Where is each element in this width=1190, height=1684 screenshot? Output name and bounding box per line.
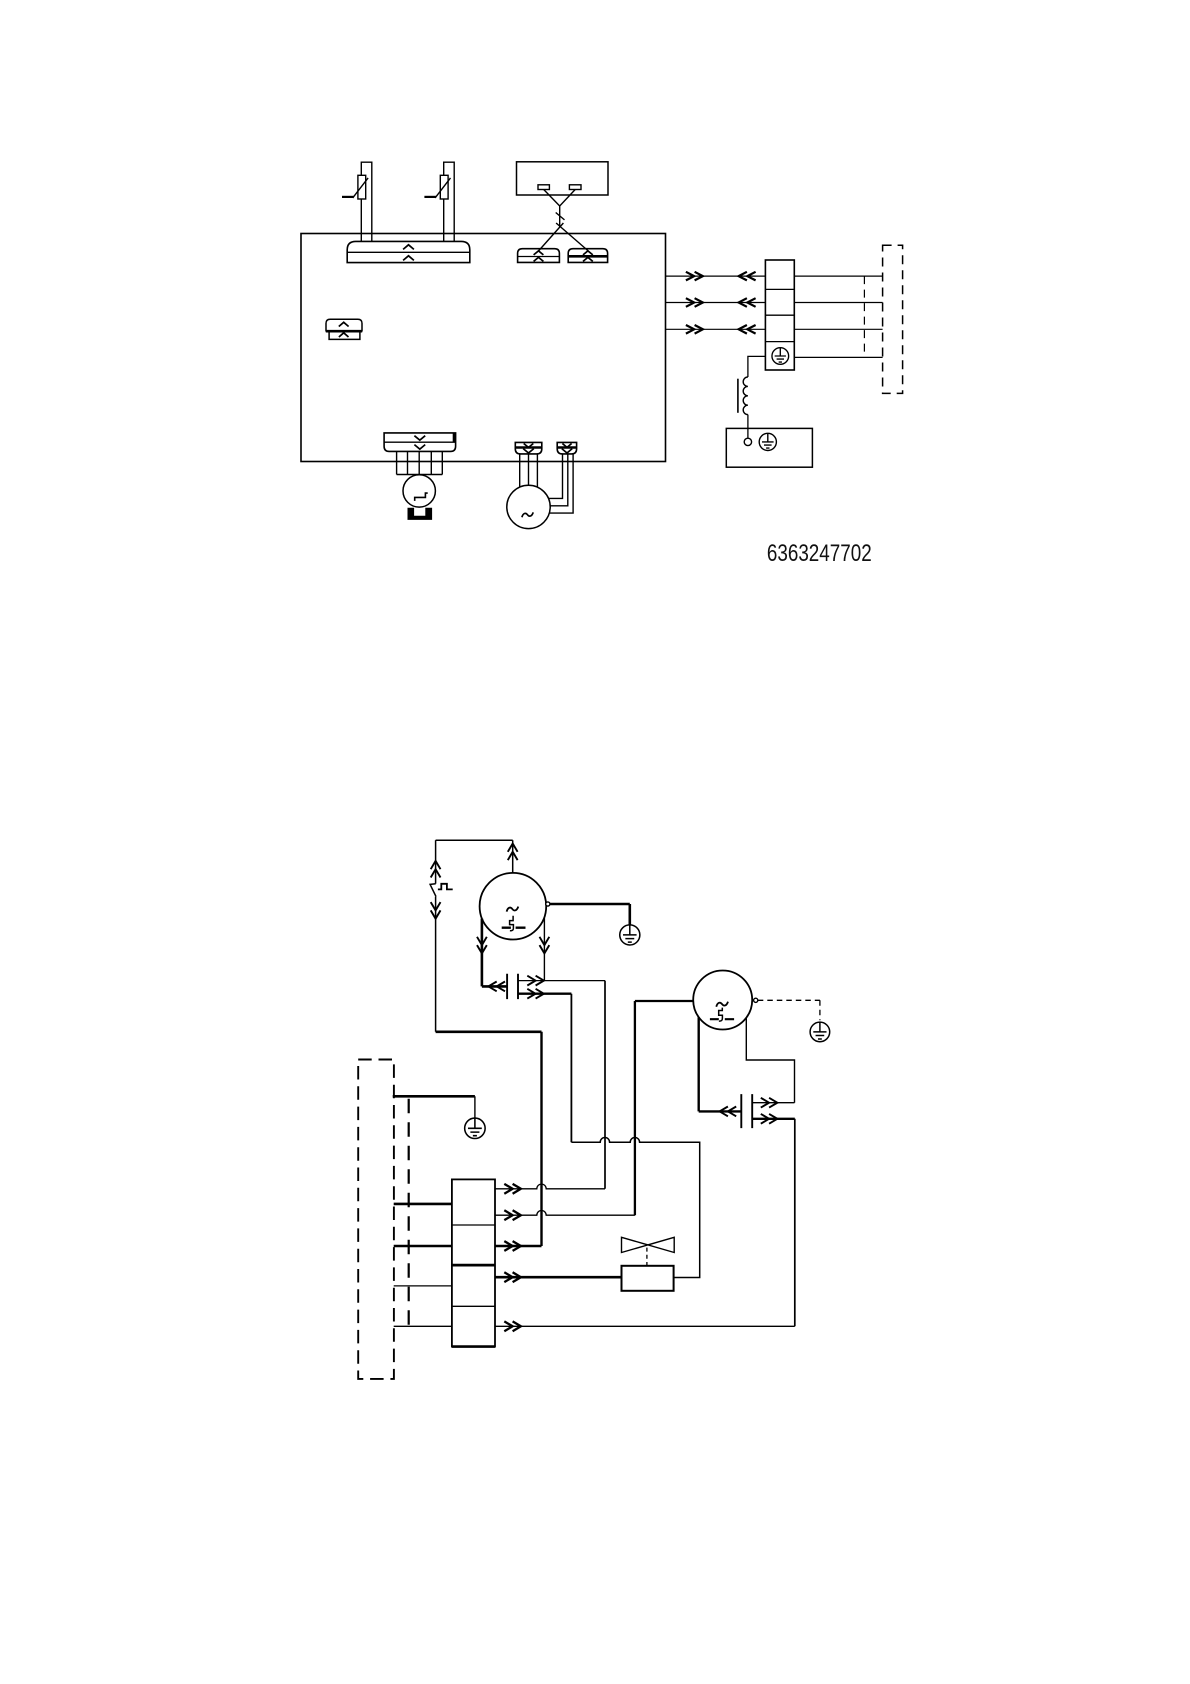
TB2 wire 3 arrows — [504, 1241, 521, 1251]
thermistor TH2 — [424, 175, 450, 199]
connector CN-OPT — [326, 319, 362, 339]
compressor earth terminal — [546, 902, 550, 906]
fan motor left leads — [520, 454, 538, 487]
fan PE symbol — [810, 1022, 830, 1042]
overload protector OLP — [430, 884, 453, 897]
thermistor TH2 probe sleeve — [444, 162, 455, 241]
valve stem dashed — [646, 1248, 648, 1266]
OLP branch up arrows — [431, 861, 441, 878]
supply PE symbol — [465, 1118, 485, 1138]
fan motor right leads — [549, 454, 574, 513]
indoor fan motor M2 — [507, 485, 550, 528]
PCB to terminal block wires — [666, 276, 766, 329]
supply earth wire — [393, 1096, 475, 1118]
valve solenoid coil box — [622, 1266, 674, 1291]
fan lead right — [746, 1018, 794, 1103]
compressor lead left — [482, 919, 507, 987]
compressor top feed wire — [436, 840, 513, 873]
cable boundary dashed — [863, 276, 865, 357]
thermistor TH1 probe sleeve — [361, 162, 372, 241]
choke coil L1 — [738, 377, 748, 415]
connector CN-TH — [347, 241, 470, 262]
TB1 earth terminal — [772, 348, 789, 365]
connector CN-DISP1 — [518, 249, 560, 263]
earth box PE symbol — [759, 433, 776, 450]
supply wires to block — [394, 1204, 452, 1326]
display pads — [538, 185, 581, 190]
OLP branch down arrows — [431, 902, 441, 919]
OLP branch upper wire — [435, 840, 437, 884]
louver stepping motor M1 — [403, 475, 435, 507]
C1 bottom right wire — [518, 994, 571, 1142]
fan earth terminal — [754, 998, 758, 1002]
earth box — [726, 428, 812, 467]
fan capacitor C2 — [741, 1094, 752, 1128]
outdoor side dashed box — [883, 245, 903, 393]
earth choke wire — [748, 356, 766, 377]
TB2 wire 5 — [495, 1325, 795, 1327]
C2 right arrows — [761, 1098, 778, 1124]
valve feed wire with jumps — [571, 1138, 699, 1278]
OLP branch lower wire — [435, 897, 437, 1032]
compressor lead right arrows — [540, 937, 550, 954]
fan motor MF — [693, 971, 752, 1030]
C1 right arrows — [527, 976, 544, 999]
C2 top right wire — [752, 1102, 794, 1104]
display unit box — [517, 162, 609, 195]
earth box terminal dot — [744, 438, 751, 445]
compressor PE symbol — [620, 925, 640, 945]
compressor run capacitor C1 — [507, 974, 518, 999]
TB2 wire 1 — [495, 1184, 605, 1189]
inner cable dashed line — [408, 1099, 410, 1327]
fan lead left arrows — [720, 1107, 737, 1117]
choke to earth box wire — [747, 415, 749, 439]
TB1 outgoing wires — [794, 276, 882, 357]
connector CN-FAN2 — [557, 442, 576, 454]
fan motor N wire — [635, 1001, 693, 1215]
crossed wires to connectors — [539, 223, 589, 251]
TB2 wire 5 arrows — [504, 1321, 521, 1331]
4-way valve symbol — [622, 1237, 675, 1252]
connector CN-FAN1 — [515, 442, 542, 454]
compressor lead left arrows — [477, 937, 505, 992]
connector CN-DISP2 — [568, 249, 607, 263]
TB2 wire 2 arrows — [504, 1210, 521, 1220]
connector CN-LOUVER — [384, 433, 456, 452]
outdoor terminal block TB2 — [452, 1179, 495, 1346]
TB2 wire 1 arrows — [504, 1184, 521, 1194]
compressor motor MC — [480, 873, 547, 940]
OLP branch to L wire — [436, 1032, 542, 1246]
TB2 wire 3 — [495, 1245, 542, 1248]
compressor top wire arrows — [508, 844, 518, 861]
fan earth dashed wire — [758, 1000, 820, 1020]
twist slash — [556, 213, 565, 220]
display harness Y wire — [544, 190, 576, 228]
louver flap icon — [408, 508, 433, 520]
C1 top right wire — [518, 981, 605, 1189]
compressor lead right — [543, 918, 545, 981]
TB2 wire 4 arrows — [504, 1272, 521, 1282]
TB2 wire 4 — [495, 1276, 622, 1279]
thermistor TH1 — [342, 175, 368, 199]
TB2 wire 2 — [495, 1211, 635, 1216]
fan lead left — [699, 1017, 742, 1111]
outdoor supply dashed box — [358, 1060, 394, 1379]
compressor earth wire — [550, 904, 630, 925]
terminal block TB1 — [765, 260, 794, 370]
indoor control PCB outline — [301, 234, 666, 462]
louver motor leads — [397, 451, 443, 474]
wire arrows — [686, 272, 756, 334]
C2 bottom right wire — [752, 1119, 795, 1327]
svg-text:6363247702: 6363247702 — [767, 541, 872, 567]
